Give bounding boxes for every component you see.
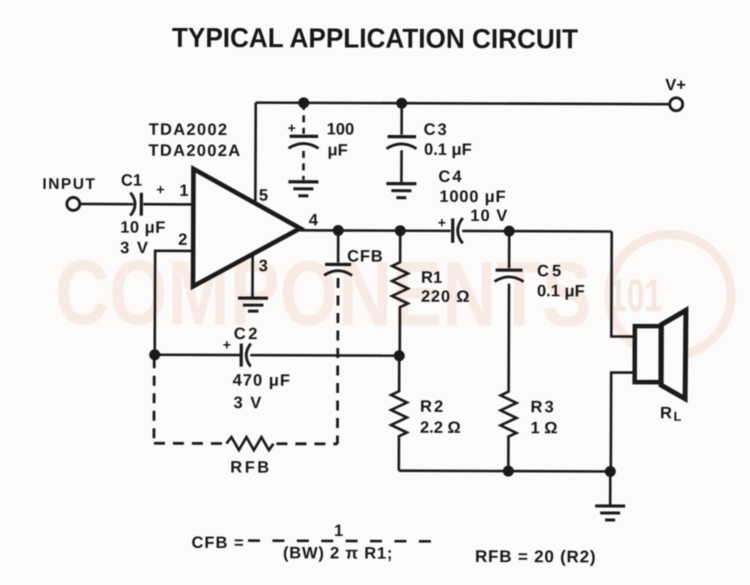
svg-text:C5: C5	[537, 262, 564, 280]
svg-text:+: +	[438, 214, 446, 230]
svg-text:R3: R3	[531, 398, 556, 416]
svg-text:CFB: CFB	[347, 247, 383, 265]
svg-text:COMPONENTS: COMPONENTS	[55, 242, 592, 346]
svg-text:101: 101	[609, 269, 662, 321]
svg-text:C4: C4	[438, 168, 463, 186]
svg-text:10 V: 10 V	[470, 207, 508, 225]
svg-text:V+: V+	[665, 76, 686, 94]
svg-text:C3: C3	[424, 121, 449, 139]
svg-text:2: 2	[178, 231, 187, 249]
svg-text:TYPICAL APPLICATION CIRCUIT: TYPICAL APPLICATION CIRCUIT	[172, 22, 578, 55]
svg-text:R2: R2	[420, 398, 445, 416]
svg-text:TDA2002A: TDA2002A	[148, 142, 241, 160]
svg-text:R1: R1	[421, 269, 442, 287]
svg-text:1: 1	[179, 182, 188, 200]
svg-text:C1: C1	[121, 172, 142, 190]
svg-text:1000 μF: 1000 μF	[439, 188, 506, 206]
svg-text:3: 3	[259, 257, 268, 275]
svg-text:2.2 Ω: 2.2 Ω	[420, 419, 461, 437]
svg-text:1: 1	[334, 522, 343, 540]
svg-text:3 V: 3 V	[120, 239, 149, 257]
svg-text:+: +	[156, 181, 164, 197]
svg-text:CFB =: CFB =	[191, 534, 244, 552]
svg-text:+: +	[288, 120, 296, 136]
svg-text:RFB: RFB	[230, 459, 271, 477]
svg-text:μF: μF	[328, 141, 348, 159]
svg-text:TDA2002: TDA2002	[149, 121, 229, 139]
svg-text:0.1 μF: 0.1 μF	[424, 141, 472, 159]
svg-text:R: R	[660, 404, 672, 422]
svg-text:L: L	[673, 409, 681, 424]
svg-text:(BW) 2 π R1;: (BW) 2 π R1;	[283, 544, 393, 562]
svg-text:4: 4	[309, 211, 319, 229]
svg-text:INPUT: INPUT	[42, 176, 96, 193]
svg-text:0.1 μF: 0.1 μF	[537, 282, 585, 300]
svg-text:5: 5	[259, 187, 268, 205]
svg-text:470 μF: 470 μF	[233, 372, 291, 390]
svg-text:C2: C2	[234, 325, 260, 343]
svg-text:1 Ω: 1 Ω	[530, 419, 557, 437]
svg-text:100: 100	[327, 120, 355, 138]
svg-text:3 V: 3 V	[234, 394, 263, 412]
svg-text:220 Ω: 220 Ω	[421, 288, 470, 306]
svg-text:+: +	[223, 337, 231, 353]
svg-text:RFB = 20 (R2): RFB = 20 (R2)	[475, 547, 596, 566]
svg-text:10 μF: 10 μF	[120, 219, 166, 237]
